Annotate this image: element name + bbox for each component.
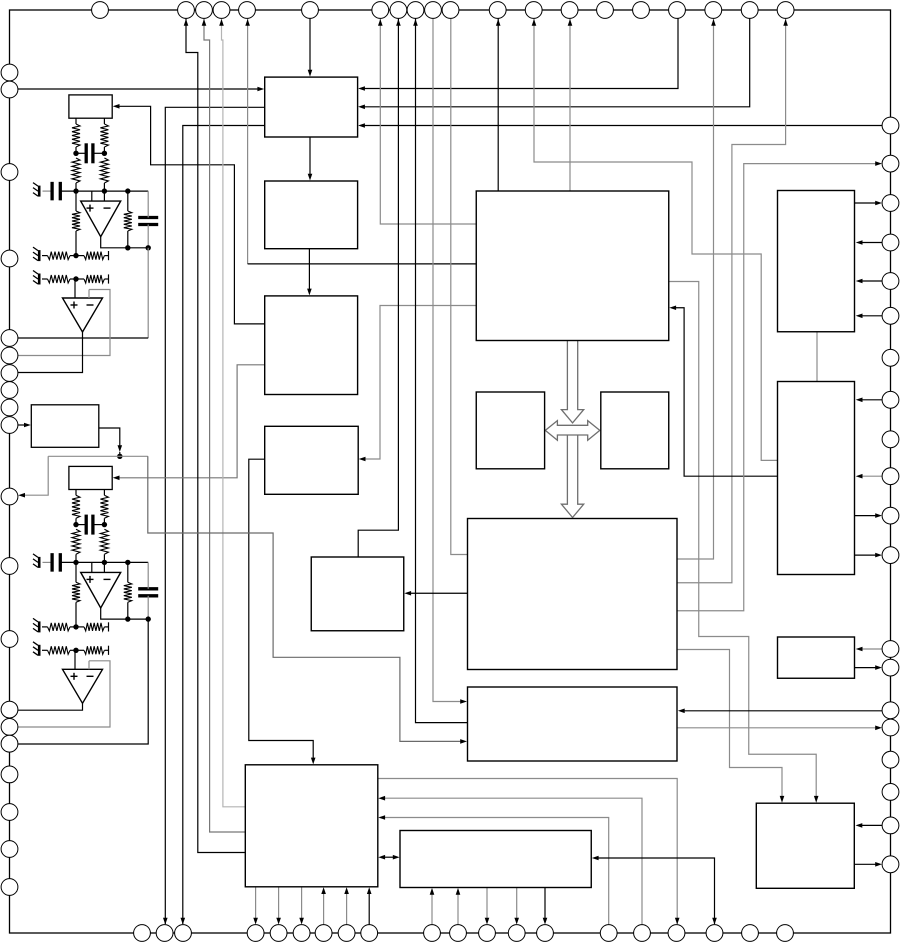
pin top 16 (633, 2, 650, 19)
wire F2 row2 lead a (42, 649, 48, 651)
wire bottom pin x323.6 into B8 (323, 891, 325, 925)
wire F1 C3 top lead (147, 191, 149, 217)
wire F2 R4 bottom lead (127, 602, 129, 619)
wire F2 row1 mid (70, 626, 84, 628)
wire hollow bus down-shaft to B6 and arrowhead (561, 435, 583, 518)
wire to BC left (row2) (248, 263, 477, 265)
wire F1 op1-out vertical (147, 248, 149, 338)
wire arrow up at pin x186 (184, 19, 189, 26)
pin left 18 (1, 804, 18, 821)
node F1 n2a (73, 188, 78, 193)
block B9 port logic (400, 831, 591, 888)
wire top pin x450.5 to B6 left (451, 18, 468, 555)
wire F2 R2a lead (75, 554, 77, 562)
pin top 17 (669, 2, 686, 19)
wire bus B1-left to bottom pin (x=165) (165, 107, 264, 924)
wire R2 out to right pin y515.6 (855, 515, 879, 517)
pin bottom 9 (361, 925, 378, 942)
wire F2 op1-out to left pin y743.7 (18, 619, 149, 744)
wire F1 row2 end tick (108, 274, 110, 283)
pin top 9 (407, 2, 424, 19)
block B2 divider (265, 181, 358, 249)
pin bottom 8 (338, 925, 355, 942)
wire F2 R3 bottom lead (75, 602, 77, 627)
node F1 row1 junction (73, 253, 78, 258)
wire F2 row1 lead a (42, 626, 48, 628)
pin bottom 16 (634, 925, 651, 942)
wire arrow up at pin x204 (202, 19, 207, 26)
block B1 clock/PLL (265, 77, 358, 137)
wire F2 C3 bottom lead (147, 596, 149, 619)
wire F1 op1 plus lead (91, 191, 93, 201)
pin top 11 (442, 2, 459, 19)
wire B1 to B2 (309, 137, 311, 177)
block B3 timing generator (265, 296, 358, 395)
wire bottom pin x369.2 into B8 (368, 891, 370, 925)
wire top pin x247 vertical (247, 18, 249, 264)
wire top pin x569.6 to BC top (569, 18, 571, 191)
wire pin VIN1 to PLL left input (18, 88, 260, 90)
wire arrow up at pin x497.7 (496, 19, 501, 26)
capacitor F2 C3 (feedback) (138, 587, 158, 590)
wire B6 right tap2 to top pin x785.6 (677, 18, 786, 583)
wire F1 R2b lead (103, 183, 105, 191)
wire arrow up at pin x380 (378, 19, 383, 26)
wire F1 row1 end tick (108, 251, 110, 260)
wire F1 box lead b (103, 118, 105, 124)
wire B9 bottom stub to pin x545 (544, 888, 546, 921)
pin left 1 (1, 64, 18, 81)
wire arrow up at pin x415.5 (413, 19, 418, 26)
capacitor F2 C2 (input shunt) (50, 553, 53, 572)
pin left 11 (1, 488, 18, 505)
pin left 15 (1, 719, 18, 736)
wire F2 cap1 lead left (76, 524, 86, 526)
wire F1 row1 mid (70, 255, 84, 257)
pin left 5 (1, 330, 18, 347)
pin bottom 11 (450, 925, 467, 942)
pin bottom 14 (537, 925, 554, 942)
block L1 oscillator (31, 405, 99, 448)
wire bottom pin x608.7 to B8 right (383, 818, 609, 926)
pin bottom 7 (315, 925, 332, 942)
wire BC right out to B11 top (right) (669, 282, 816, 800)
block B7 register file (468, 687, 678, 761)
wire right pin y315.8 into R1 (860, 315, 883, 317)
wire top pin x433 to B7 left (top) (433, 18, 463, 702)
wire L1 node to left pin y496.5 (23, 456, 48, 495)
op-amp F2 U2 (63, 669, 103, 703)
pin right 4 (882, 234, 899, 251)
pin top 5 (239, 2, 256, 19)
pin left 16 (1, 735, 18, 752)
wire F2 box leads (75, 490, 77, 496)
wire F1 R4 top lead (127, 191, 129, 211)
pin top 14 (561, 2, 578, 19)
node F1 n2b (102, 188, 107, 193)
resistor F1 R2a (72, 158, 80, 183)
wire F2 row1 end tick (108, 622, 110, 631)
resistor F1 R2b (100, 158, 108, 183)
wire F1 input node line (60, 190, 148, 192)
resistor F2 R4 (feedback) (124, 582, 132, 602)
capacitor F1 C1 (series) (85, 143, 88, 163)
resistor F1 R1b (100, 124, 108, 147)
pin left 17 (1, 766, 18, 783)
pin bottom 3 (175, 925, 192, 942)
wire F1 op2 minus lead (88, 290, 90, 299)
wire right pin y242.5 into R1 (860, 242, 883, 244)
wire B4 left tap to B8 top (249, 459, 313, 761)
pin right 13 (882, 641, 899, 658)
wire B8 bottom stub to pin x278.6 (278, 887, 280, 920)
wire F1 op1 minus lead (103, 191, 105, 201)
block R2 DAC (778, 382, 855, 575)
wire F1 op1 output node (101, 237, 149, 248)
wire top pin x380 to BC left (row1) (380, 18, 476, 224)
wire bottom pin x714.5 to B9 right (596, 858, 715, 924)
wire L1 node to B7 left (bottom) (148, 456, 463, 741)
wire right pin y476.2 into R2 (860, 475, 883, 477)
block R3 reference (778, 637, 855, 678)
pin bottom 18 (706, 925, 723, 942)
pin right 19 (882, 817, 899, 834)
ground F2 AC-gnd cap (38, 557, 41, 568)
wire B9 bottom stub to pin x487 (486, 888, 488, 921)
wire arrow up at pin x533.7 (532, 19, 537, 26)
wire B6 right tap to top pin x713 (677, 18, 714, 559)
wire F2 op1 output node (101, 608, 149, 619)
wire R1 out to right pin y203 (855, 202, 879, 204)
ground F2 row2 gnd (38, 645, 41, 656)
wire F1 box leads (75, 118, 77, 124)
pin right 3 (882, 195, 899, 212)
node F1 n1b (102, 151, 107, 156)
wire F1 feedback to left pin y355.5 (18, 290, 111, 356)
pin top 1 (92, 2, 109, 19)
block B11 serial interface (756, 803, 854, 888)
pin top 3 (196, 2, 213, 19)
node F2 n2c (125, 560, 130, 565)
pin bottom 10 (424, 925, 441, 942)
wire L1 output stub to node line (119, 452, 121, 456)
wire F1 R2a lead (75, 183, 77, 191)
wire F1 op2-out to left pin y373 (18, 332, 83, 373)
resistor F2 R1b (100, 495, 108, 518)
pin bottom 12 (479, 925, 496, 942)
wire F2 feedback to left pin y726.9 (18, 661, 111, 727)
pin left 2 (1, 81, 18, 98)
wire F1 R4 bottom lead (127, 231, 129, 248)
pin bottom 20 (777, 925, 794, 942)
capacitor F2 C1 (series) (85, 515, 88, 535)
resistor F2 R8 (84, 646, 104, 654)
wire B6 right tap4 to B11 top (left) (677, 650, 782, 800)
node F2 n1a (73, 522, 78, 527)
node F2 row2 junction (73, 648, 78, 653)
wire top pin x749.7 to B1 right (row2) (363, 18, 750, 107)
wire right pin y399.8 into R2 (860, 399, 883, 401)
node F2 row1 junction (73, 624, 78, 629)
resistor F2 R7 (48, 646, 71, 654)
pin right 11 (882, 507, 899, 524)
wire F2 R3 top lead (75, 562, 77, 582)
pin top 18 (705, 2, 722, 19)
pin top 10 (425, 2, 442, 19)
resistor F1 R6 (84, 252, 104, 260)
wire arrow up at pin x221.5 (219, 19, 224, 26)
block B4 control logic (265, 426, 359, 494)
pin right 14 (882, 659, 899, 676)
wire F1 row1 end lead (104, 255, 108, 257)
wire F2 op2-out to left pin y709.6 (18, 703, 83, 710)
wire bottom pin x642 to B8 right (383, 798, 642, 925)
resistor F1 R8 (84, 275, 104, 283)
pin top 19 (741, 2, 758, 19)
resistor F2 R5 (48, 623, 71, 631)
block SB ROM (601, 392, 669, 469)
wire F1 R1b lead (103, 147, 105, 153)
pin top 15 (597, 2, 614, 19)
wire bottom pin x432 into B9 (431, 892, 433, 925)
wire F2 op2 minus lead (88, 661, 90, 670)
wire F2 row1 end lead (104, 626, 108, 628)
wire F1 C3 bottom lead (147, 225, 149, 248)
wire F2 input node line (60, 561, 148, 563)
wire right pin y281 into R1 (860, 280, 883, 282)
pin right 10 (882, 468, 899, 485)
node F2 n3b (146, 616, 151, 621)
ground F1 row1 gnd (38, 250, 41, 261)
wire top pin x415.5 to B7 left (mid) (416, 18, 468, 723)
node F2 n1b (102, 522, 107, 527)
wire top pin x204 bus to B8 left (row2) (204, 18, 245, 832)
wire top pin x497.7 to BC top (497, 18, 499, 191)
wire B3 left tap to A1 input (118, 106, 265, 324)
pin right 15 (882, 702, 899, 719)
pin left 3 (1, 164, 18, 181)
wire F1 cap1 lead right (93, 152, 105, 154)
pin left 8 (1, 382, 18, 399)
wire B11 out to right pin y864.3 (854, 863, 878, 865)
pin bottom 4 (247, 925, 264, 942)
wire bus B1-left2 to bottom pin (x=183) (183, 126, 265, 925)
pin right 17 (882, 751, 899, 768)
pin left 6 (1, 347, 18, 364)
wire B9 bottom stub to pin x516.7 (516, 888, 518, 921)
wire arrow up at pin x569.6 (568, 19, 573, 26)
wire F1 R3 top lead (75, 191, 77, 211)
op-amp F2 U1 (81, 572, 121, 608)
wire R3 out to right pin y667.6 (855, 667, 879, 669)
pin top 13 (525, 2, 542, 19)
pin right 5 (882, 273, 899, 290)
pin left 7 (1, 365, 18, 382)
wire top pin x310 into B1 top (309, 18, 311, 73)
block BC main DSP core (476, 191, 669, 341)
pin right 1 (882, 117, 899, 134)
resistor F2 R6 (84, 623, 104, 631)
wire F1 R3 bottom lead (75, 231, 77, 256)
node F2 n2b (102, 560, 107, 565)
wire F2 op2 plus lead (74, 650, 76, 669)
wire B8-B9 bidirectional bus (382, 856, 396, 858)
wire R1 to R2 connector (816, 332, 818, 382)
wire F2 op1 minus lead (103, 562, 105, 572)
wire F2 row2 end lead (104, 649, 108, 651)
resistor F2 R2b (100, 529, 108, 554)
pin bottom 1 (134, 925, 151, 942)
ground F1 AC-gnd cap (38, 186, 41, 197)
pin right 12 (882, 547, 899, 564)
wire F1 R1a lead (75, 147, 77, 153)
node F1 n1a (73, 151, 78, 156)
wire arrow up at pin x713 (711, 19, 716, 26)
wire F1 row2 mid (70, 278, 84, 280)
block B6 interface logic (468, 519, 678, 670)
wire F1 op1-out to left pin y338 (18, 337, 149, 339)
pin right 2 (882, 155, 899, 172)
block B8 host interface (245, 765, 377, 887)
wire F2 R1a lead (75, 518, 77, 524)
resistor F1 R7 (48, 275, 71, 283)
block SA RAM (476, 392, 544, 469)
resistor F1 R3 (72, 211, 80, 231)
pin bottom 5 (270, 925, 287, 942)
pin bottom 17 (668, 925, 685, 942)
pin left 13 (1, 631, 18, 648)
wire B6 right tap3 to right pin y163.6 (677, 164, 878, 611)
pin bottom 13 (508, 925, 525, 942)
wire L1 output to node (99, 428, 120, 448)
wire arrow up at pin x247 (245, 19, 250, 26)
block A1 filter1 input stage (69, 95, 112, 118)
pin bottom 6 (293, 925, 310, 942)
pin left 12 (1, 558, 18, 575)
wire F1 row1 lead a (42, 255, 48, 257)
node F2 n3a (125, 616, 130, 621)
wire F2 op1 plus lead (91, 562, 93, 572)
ground F2 row1 gnd (38, 621, 41, 632)
wire B7 right to right pin y727.5 (677, 727, 878, 729)
wire L1 node line (48, 455, 148, 457)
resistor F2 R3 (72, 582, 80, 602)
wire F2 C3 top lead (147, 562, 149, 588)
pin right 6 (882, 307, 899, 324)
block A2 filter2 input stage (69, 466, 112, 489)
pin right 18 (882, 784, 899, 801)
wire F2 R1b lead (103, 518, 105, 524)
wire right pin y710.3 to B7 right (683, 710, 883, 712)
wire F2 box lead b (103, 490, 105, 496)
op-amp F1 U1 (81, 201, 121, 237)
capacitor F1 C2 (input shunt) (50, 182, 53, 201)
resistor F2 R2a (72, 529, 80, 554)
pin right 9 (882, 431, 899, 448)
node L1 output junction (117, 454, 122, 459)
wire top pin x677 to B1 right (row1) (363, 18, 678, 89)
wire BC left tap to B4 right (364, 306, 476, 460)
wire F2 R4 top lead (127, 562, 129, 582)
wire right pin y649 into R3 (860, 648, 883, 650)
resistor F1 R4 (feedback) (124, 211, 132, 231)
wire B8 bottom stub to pin x255.6 (255, 887, 257, 920)
resistor F2 R1a (72, 495, 80, 518)
node F2 n2a (73, 560, 78, 565)
pin bottom 15 (600, 925, 617, 942)
wire right pin y825.4 into B11 (860, 824, 883, 826)
wire F2 gnd-cap lead (43, 561, 53, 563)
wire B6 left to B5 right (409, 592, 468, 594)
wire R2 left tap to BC right input (674, 308, 778, 476)
wire F2 row2 mid (70, 649, 84, 651)
block R1 output buffer (778, 191, 855, 332)
pin top 2 (178, 2, 195, 19)
wire F2 cap1 lead right (93, 524, 105, 526)
pin right 8 (882, 391, 899, 408)
wire top pin x398 to B5 top (358, 18, 398, 557)
pin top 7 (372, 2, 389, 19)
pin left 9 (1, 399, 18, 416)
node F1 n2c (125, 188, 130, 193)
wire top pin x186 bus to B8 left (row3) (186, 18, 245, 853)
pin top 8 (390, 2, 407, 19)
wire F1 gnd-cap lead (43, 190, 53, 192)
pin right 7 (882, 349, 899, 366)
node F1 row2 junction (73, 276, 78, 281)
block B5 decoder (311, 557, 404, 631)
resistor F1 R5 (48, 252, 71, 260)
resistor F1 R1a (72, 124, 80, 147)
wire F1 row2 end lead (104, 278, 108, 280)
pin left 19 (1, 841, 18, 858)
pin bottom 2 (156, 925, 173, 942)
ground F1 row2 gnd (38, 274, 41, 285)
wire B3 left tap2 to A2 input (118, 365, 265, 478)
wire hollow bus BC down-shaft and arrowhead (561, 341, 583, 423)
wire F2 row2 end tick (108, 646, 110, 655)
node F1 n3a (125, 245, 130, 250)
wire right pin y125.5 to B1 right (row3) (363, 125, 883, 127)
wire F1 op2 plus lead (74, 279, 76, 298)
wire B2 to B3 (308, 249, 310, 292)
wire F1 row2 lead a (42, 278, 48, 280)
pin left 14 (1, 701, 18, 718)
pin left 4 (1, 250, 18, 267)
wire arrow up at pin x785.6 (783, 19, 788, 26)
pin bottom 19 (742, 925, 759, 942)
pin top 6 (302, 2, 319, 19)
wire hollow bus horizontal double-arrow SA-SB (545, 421, 600, 441)
wire B8 right out to bottom pin x676.5 (378, 779, 677, 925)
pin left 10 (1, 417, 18, 434)
wire B8 bottom stub to pin x301.6 (301, 887, 303, 920)
pin top 12 (489, 2, 506, 19)
wire top pin x221.5 bus to B8 left (row1) (222, 18, 246, 807)
wire R2 out to right pin y555.1 (855, 554, 879, 556)
wire bottom pin x458 into B9 (457, 892, 459, 925)
capacitor F1 C3 (feedback) (138, 216, 158, 219)
pin right 16 (882, 719, 899, 736)
pin top 20 (777, 2, 794, 19)
wire bottom pin x346.6 into B8 (346, 891, 348, 925)
wire F1 cap1 lead left (76, 152, 86, 154)
node F1 n3b (146, 245, 151, 250)
pin left 20 (1, 879, 18, 896)
wire F2 R2b lead (103, 554, 105, 562)
pin top 4 (213, 2, 230, 19)
wire arrow up at pin x398 (396, 19, 401, 26)
